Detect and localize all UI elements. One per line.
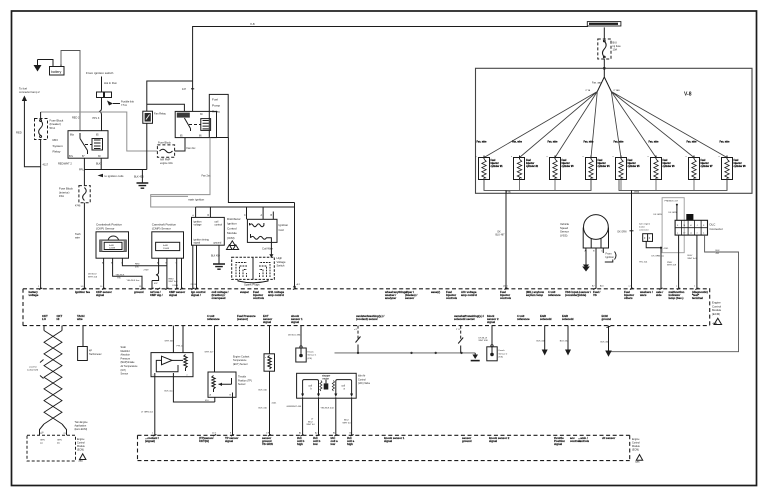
svg-text:DK GRN 4xx: DK GRN 4xx	[652, 256, 665, 258]
svg-text:Injector: Injector	[491, 162, 499, 165]
svg-text:Fuel: Fuel	[628, 160, 633, 162]
svg-text:(icide): (icide)	[578, 293, 586, 297]
svg-text:BLK/: BLK/	[688, 255, 693, 257]
svg-text:Switch: Switch	[277, 263, 285, 267]
twin engine in-line connector	[639, 222, 653, 241]
twisted pair to aux ECM	[40, 326, 67, 436]
wire tach feed through fuse block F3	[83, 170, 85, 289]
svg-text:WHT 4x1: WHT 4x1	[688, 258, 698, 260]
fuse block F4 (fan fuse, dashed)	[157, 141, 174, 165]
svg-text:WHT 4x9: WHT 4x9	[667, 265, 677, 267]
svg-text:Fan. wire: Fan. wire	[584, 142, 595, 144]
wire DLC ground loop	[610, 235, 739, 352]
svg-text:2749: 2749	[144, 269, 150, 271]
svg-text:ITTB: ITTB	[634, 192, 639, 194]
svg-text:Fuel: Fuel	[212, 98, 218, 102]
svg-text:solenoid: solenoid	[540, 317, 552, 321]
svg-text:cylinder #8: cylinder #8	[734, 166, 747, 168]
EGR ground arrow 1	[537, 326, 548, 356]
wire bus drops to ICM pins	[196, 207, 274, 219]
svg-text:others: others	[624, 296, 633, 300]
wire battery positive feed (RED) to MFI relay	[61, 51, 80, 131]
svg-text:BLU/: BLU/	[308, 421, 313, 423]
svg-text:V-8: V-8	[684, 92, 692, 98]
svg-text:Knock: Knock	[499, 350, 506, 352]
svg-text:AAA: AAA	[713, 322, 718, 325]
svg-text:(CMP) Sensor: (CMP) Sensor	[152, 227, 171, 231]
fuel injector #2	[511, 142, 539, 191]
svg-text:Sensor 1: Sensor 1	[308, 354, 318, 357]
wire VSS ground arrow	[585, 250, 587, 266]
svg-text:B/U: B/U	[613, 41, 617, 45]
svg-text:DK BLU/: DK BLU/	[88, 274, 97, 276]
svg-text:DK BLU 496: DK BLU 496	[288, 334, 301, 336]
svg-text:BLK: BLK	[716, 250, 721, 252]
svg-text:PNK/: PNK/	[667, 262, 672, 264]
svg-text:amp control: amp control	[461, 293, 477, 297]
svg-text:Position (TP): Position (TP)	[238, 379, 252, 382]
svg-text:Distributor: Distributor	[227, 217, 241, 221]
svg-text:(ICM): (ICM)	[227, 236, 235, 240]
wire PPL fuse to MFI relay with hop over bus	[99, 98, 102, 131]
svg-text:engine 10A: engine 10A	[160, 162, 173, 165]
svg-text:ground: ground	[214, 242, 222, 245]
fuel injector #7	[686, 142, 714, 191]
wire CMP-C signal	[176, 261, 178, 289]
aux ECM dashed box (twin engine)	[27, 435, 76, 461]
svg-text:asylum temp: asylum temp	[526, 293, 543, 297]
svg-text:signal: signal	[554, 442, 562, 446]
svg-text:YEL/BLK: YEL/BLK	[116, 274, 125, 276]
svg-text:ease(r): ease(r)	[431, 290, 440, 294]
svg-text:(signal): (signal)	[145, 439, 155, 443]
svg-text:(KS): (KS)	[499, 357, 504, 359]
svg-text:battery: battery	[51, 70, 62, 74]
fuel pump relay K1 contacts	[175, 111, 216, 137]
bottom ECM label	[632, 438, 643, 464]
svg-text:Fan 2xx: Fan 2xx	[187, 147, 197, 150]
svg-text:signal: signal	[487, 320, 495, 324]
svg-text:(consider): (consider)	[565, 293, 579, 297]
svg-text:Fan. wire: Fan. wire	[687, 142, 698, 144]
pale in-line connector housing	[662, 198, 684, 253]
svg-text:4P: 4P	[89, 349, 92, 352]
hot-at-all-times label box	[587, 22, 621, 26]
svg-text:C4 A6: C4 A6	[172, 284, 179, 287]
svg-text:to ignition coils: to ignition coils	[105, 174, 125, 178]
idle air control valve IAC	[297, 373, 357, 398]
svg-text:7.5 A: 7.5 A	[121, 103, 127, 107]
svg-text:wars: wars	[639, 293, 647, 297]
wire CKP-C reference jumper	[122, 261, 166, 289]
svg-text:high: high	[347, 442, 353, 446]
svg-text:Injector: Injector	[562, 162, 570, 165]
svg-text:BLU 467: BLU 467	[496, 234, 506, 236]
svg-text:CKT(hi): CKT(hi)	[199, 439, 209, 443]
fuel injector #4	[583, 142, 611, 191]
svg-text:Spark Plugs: Spark Plugs	[244, 282, 260, 286]
svg-text:amp control: amp control	[268, 293, 284, 297]
svg-text:Fuel: Fuel	[734, 160, 739, 162]
svg-text:Throttle: Throttle	[238, 376, 247, 379]
wire VSS outputs to PCM	[596, 250, 603, 288]
svg-text:low: low	[313, 442, 318, 446]
svg-text:PNK/BLK 417: PNK/BLK 417	[665, 200, 679, 202]
svg-text:control: control	[215, 223, 223, 226]
wire ignition switch to fuse	[101, 77, 103, 93]
svg-text:4x88: 4x88	[109, 245, 115, 247]
svg-text:Fan Relay: Fan Relay	[154, 111, 167, 115]
svg-text:Ignition: Ignition	[606, 255, 615, 259]
sensor ground bus (pale)	[335, 352, 480, 362]
svg-text:Injector: Injector	[526, 162, 534, 165]
fuse block F3 (dashed)	[59, 186, 90, 203]
svg-text:BLU/: BLU/	[344, 420, 349, 422]
PCM label	[712, 301, 722, 326]
svg-text:Fuel: Fuel	[701, 160, 706, 162]
svg-text:(ECT) Sensor: (ECT) Sensor	[233, 363, 248, 366]
svg-text:BLK 410: BLK 410	[259, 389, 268, 391]
svg-text:21 /2: 21 /2	[212, 433, 216, 435]
svg-text:447: 447	[182, 88, 187, 91]
svg-text:GRN: GRN	[40, 440, 45, 442]
svg-text:PPL: PPL	[79, 169, 84, 172]
svg-text:From ignition switch: From ignition switch	[86, 71, 114, 75]
svg-text:(Euro ECM): (Euro ECM)	[75, 428, 88, 431]
svg-text:tach(on/off): tach(on/off)	[27, 369, 38, 372]
ECT sensor R1	[264, 354, 275, 371]
svg-text:Coil: Coil	[279, 228, 285, 232]
svg-text:cylinder #7: cylinder #7	[701, 166, 714, 168]
wire DLC MIL line	[678, 235, 680, 288]
svg-text:(CKP) Sensor: (CKP) Sensor	[96, 227, 115, 231]
svg-text:AAA: AAA	[79, 460, 84, 463]
svg-text:(coolant) sensor: (coolant) sensor	[356, 317, 379, 321]
fuel pump relay K1 label box	[209, 94, 228, 137]
aux ECM pin ticks	[42, 432, 354, 437]
svg-text:ITTAB: ITTAB	[614, 89, 621, 92]
svg-text:A2: A2	[315, 432, 317, 435]
svg-text:Absolute: Absolute	[121, 354, 131, 357]
svg-text:wire: wire	[75, 235, 80, 239]
svg-text:DK BLU/: DK BLU/	[479, 337, 488, 339]
svg-text:cylinder #6: cylinder #6	[663, 166, 676, 168]
wire ICM timing pins to PCM	[193, 245, 197, 289]
svg-text:RED: RED	[16, 131, 22, 135]
wire injector control drop 1	[505, 190, 507, 288]
svg-text:10A: 10A	[613, 48, 618, 52]
svg-text:12x88: 12x88	[109, 248, 116, 250]
svg-text:(MAP)/Intake: (MAP)/Intake	[121, 361, 136, 364]
wire MAP signal to aux ECM	[154, 377, 156, 436]
svg-text:WHT 4x1: WHT 4x1	[169, 281, 179, 283]
svg-text:cylinder #2: cylinder #2	[526, 166, 539, 168]
svg-text:controls: controls	[253, 296, 264, 300]
svg-text:BLK: BLK	[96, 163, 101, 166]
svg-text:Air Temperature: Air Temperature	[121, 365, 139, 368]
svg-text:side: side	[656, 293, 662, 297]
svg-text:high: high	[297, 442, 303, 446]
svg-text:Ignition: Ignition	[279, 223, 289, 227]
svg-text:solenoid secret: solenoid secret	[454, 317, 475, 321]
fuel injector #5	[613, 142, 641, 191]
svg-text:A1: A1	[299, 432, 301, 435]
main bottom ECM dashed box	[138, 435, 630, 460]
svg-text:terminal: terminal	[692, 296, 703, 300]
DLC connector J1	[675, 214, 707, 235]
wire DLC power feed	[676, 204, 678, 206]
wire feed to fuel pump relay coil	[147, 104, 185, 111]
svg-text:CMP sig /: CMP sig /	[150, 293, 163, 297]
svg-text:15A: 15A	[59, 194, 64, 198]
svg-text:50 A: 50 A	[50, 126, 56, 130]
svg-text:ground: ground	[134, 290, 144, 294]
svg-text:reference: reference	[548, 293, 561, 297]
svg-text:AAA: AAA	[635, 460, 640, 463]
svg-text:signal /: signal /	[191, 293, 201, 297]
MAP sensor U2	[151, 353, 193, 377]
vehicle speed sensor VSS	[560, 215, 609, 253]
svg-text:controls: controls	[446, 296, 457, 300]
svg-text:HI: HI	[57, 317, 60, 321]
svg-text:YEL/BLK 444: YEL/BLK 444	[321, 407, 335, 409]
wire CMP-A with hop	[152, 261, 159, 289]
ECM ground arrow	[601, 326, 612, 357]
wire battery negative to ground	[38, 60, 54, 67]
svg-text:Fuel: Fuel	[491, 160, 496, 162]
fuel injector #1	[476, 142, 504, 191]
svg-text:RED/WHT 2: RED/WHT 2	[58, 163, 72, 166]
injector common bus	[484, 180, 727, 191]
wire main V8 feed line	[193, 27, 588, 112]
svg-text:PPL 3: PPL 3	[93, 117, 100, 120]
PCM main dashed box	[23, 288, 710, 325]
throttle position sensor TP	[208, 372, 236, 397]
wire fuel-connector lamp down and over to battery fuse	[24, 101, 40, 167]
svg-text:Pressure: Pressure	[121, 357, 131, 360]
wire ICM ground pin	[218, 245, 220, 263]
injector feed fan split	[597, 68, 611, 91]
fuel injector #3	[547, 142, 575, 191]
svg-text:Fan. aaa: Fan. aaa	[592, 82, 602, 85]
svg-text:connector: connector	[639, 228, 649, 231]
switch S1 (dashed link)	[354, 326, 361, 353]
svg-text:System: System	[53, 144, 64, 148]
svg-text:evaper: evaper	[240, 290, 250, 294]
svg-text:LT GRN 4x2: LT GRN 4x2	[141, 411, 154, 413]
svg-text:GRY 448: GRY 448	[165, 341, 175, 343]
svg-text:signal: signal	[489, 439, 497, 443]
svg-text:BLK 450: BLK 450	[211, 255, 221, 257]
svg-text:Idle Air: Idle Air	[358, 375, 366, 378]
svg-text:Hot In Run: Hot In Run	[104, 81, 117, 85]
svg-text:Fuel: Fuel	[562, 160, 567, 162]
distributor ignition control module ICM	[192, 217, 225, 245]
knock sensor 1 KS1	[288, 326, 317, 362]
svg-text:Fan. wire: Fan. wire	[614, 142, 625, 144]
svg-text:DK GRN: DK GRN	[618, 232, 627, 234]
svg-text:twin engine: twin engine	[639, 222, 651, 225]
node to-fuel-connector-lamp arrow	[19, 87, 40, 102]
fuse block F2 (battery fuse, dashed)	[35, 119, 64, 140]
wire TP 5V feed	[214, 326, 216, 372]
wire tach signal	[82, 326, 84, 347]
svg-text:solenoid: solenoid	[562, 317, 574, 321]
svg-text:Fuel: Fuel	[598, 160, 603, 162]
svg-text:PPL 4: PPL 4	[177, 345, 184, 347]
svg-text:Control: Control	[358, 378, 366, 381]
svg-text:8: 8	[230, 433, 231, 435]
tachometer box	[78, 347, 102, 361]
svg-text:Manifold: Manifold	[121, 350, 131, 353]
svg-text:ignition fea: ignition fea	[75, 290, 90, 294]
op MFI system relay U1	[68, 131, 108, 159]
wire TP signal to aux ECM	[232, 397, 234, 435]
svg-text:ground: ground	[462, 439, 472, 443]
svg-text:Engine Coolant: Engine Coolant	[233, 355, 250, 358]
wire in-line connector to junction	[646, 241, 661, 247]
svg-text:Module: Module	[227, 231, 237, 235]
svg-text:ITTA: ITTA	[586, 89, 591, 92]
fusible link arrow	[107, 100, 135, 108]
svg-text:BLK 434: BLK 434	[560, 340, 569, 342]
svg-text:used for: used for	[29, 365, 37, 368]
svg-text:VS: VS	[593, 293, 597, 297]
svg-text:4141: 4141	[664, 248, 670, 250]
svg-text:DK GRN: DK GRN	[669, 212, 678, 214]
svg-text:(ECM): (ECM)	[632, 448, 639, 451]
svg-text:High: High	[277, 256, 283, 260]
svg-text:signal: signal	[96, 293, 104, 297]
svg-text:4117: 4117	[43, 163, 49, 167]
svg-text:stepper: stepper	[322, 375, 330, 378]
svg-text:coil: coil	[309, 386, 313, 388]
wire fan output (pale) to main ignition bus	[151, 138, 210, 207]
fuse F5 (ECM B fuse, dashed)	[598, 39, 621, 59]
wire to ignition coils arrow	[98, 174, 125, 178]
svg-text:(a): (a)	[40, 442, 43, 444]
wire main ignition bus to ICM and coil	[196, 138, 295, 208]
warning triangles	[227, 241, 239, 250]
svg-text:WHT 44: WHT 44	[343, 422, 352, 424]
svg-text:RED 2: RED 2	[72, 116, 80, 119]
svg-text:Relay: Relay	[53, 150, 61, 154]
wire injector control drop 2	[631, 190, 633, 288]
switch S2 (dashed link)	[456, 326, 463, 353]
svg-text:DLC: DLC	[710, 223, 716, 227]
spark plugs SP1-8	[232, 257, 275, 286]
svg-text:WHT 44: WHT 44	[307, 424, 316, 426]
svg-text:Fusible link: Fusible link	[121, 100, 135, 104]
svg-text:BLK 450: BLK 450	[134, 176, 144, 179]
svg-text:(b): (b)	[57, 442, 60, 444]
svg-text:YEL 4x4: YEL 4x4	[639, 261, 648, 263]
svg-text:4x88: 4x88	[163, 245, 169, 247]
svg-text:Voltage: Voltage	[277, 260, 286, 264]
ground G3 (ICM ground)	[213, 264, 225, 269]
svg-text:MFI: MFI	[53, 138, 58, 142]
svg-text:signal: signal	[384, 439, 392, 443]
svg-text:reference: reference	[207, 317, 220, 321]
svg-text:YEL/BLK 4xx: YEL/BLK 4xx	[127, 280, 141, 282]
aux ECM label	[77, 438, 86, 463]
svg-text:Sensor: Sensor	[238, 383, 246, 386]
svg-text:Coil Wire: Coil Wire	[262, 246, 273, 250]
svg-text:VS GRN: VS GRN	[262, 442, 273, 446]
svg-text:J: J	[697, 225, 698, 227]
svg-text:Tach: Tach	[75, 232, 81, 236]
svg-text:ground: ground	[602, 317, 612, 321]
wire battery fuse to ECM battery pin	[40, 140, 42, 289]
svg-text:BLK 450: BLK 450	[601, 341, 610, 343]
svg-text:Sensor 2: Sensor 2	[499, 352, 509, 355]
svg-text:WHT 4x6: WHT 4x6	[88, 276, 98, 278]
svg-text:lamp (Sec.): lamp (Sec.)	[669, 296, 684, 300]
svg-text:BLK 434: BLK 434	[537, 340, 546, 342]
svg-text:connector lamp 2: connector lamp 2	[19, 90, 40, 94]
wire fan lines to injectors 1-4	[484, 92, 597, 158]
svg-text:Scab: Scab	[121, 346, 127, 349]
svg-text:coil: coil	[342, 386, 346, 388]
svg-text:20: 20	[42, 432, 44, 434]
svg-text:signal: signal	[291, 320, 299, 324]
wire CKP-A signal to PCM	[103, 261, 105, 289]
svg-text:Fuel: Fuel	[526, 160, 531, 162]
svg-text:4141: 4141	[272, 402, 278, 404]
svg-text:controls: controls	[500, 296, 511, 300]
svg-text:B2: B2	[350, 433, 352, 435]
svg-text:Fan. wire: Fan. wire	[649, 142, 660, 144]
wire feed to ECM-B fuse	[603, 27, 605, 39]
wire IAC coil wires to aux ECM	[303, 397, 352, 435]
svg-text:in-line: in-line	[639, 226, 646, 228]
wire MFI relay output bus	[84, 158, 146, 169]
svg-text:b*: b*	[684, 232, 686, 234]
wire fuse to V8 junction	[603, 59, 605, 68]
svg-text:cylinder #3: cylinder #3	[562, 166, 575, 168]
svg-text:signal: signal	[263, 320, 271, 324]
wire CMP extra pin	[181, 258, 183, 289]
wire ECT feed	[269, 326, 271, 354]
svg-text:(ECM): (ECM)	[712, 312, 720, 316]
svg-text:analyzer: analyzer	[385, 296, 397, 300]
svg-text:4746: 4746	[75, 205, 81, 208]
PCM pin labels row2	[42, 314, 611, 324]
svg-text:low: low	[331, 442, 336, 446]
svg-text:B1: B1	[333, 433, 335, 435]
PCM pin ticks	[38, 285, 699, 290]
wire fuse block F2 stub	[40, 112, 42, 119]
svg-text:signal: signal	[169, 293, 177, 297]
svg-text:(ECM): (ECM)	[77, 448, 84, 451]
svg-text:Fan 2xx: Fan 2xx	[202, 175, 212, 178]
camshaft position sensor CMP	[152, 223, 184, 265]
svg-text:main ignition: main ignition	[188, 197, 205, 201]
svg-text:voltage: voltage	[194, 223, 203, 226]
svg-text:RED: RED	[135, 264, 140, 266]
svg-text:(KS): (KS)	[308, 358, 313, 360]
svg-text:wire: wire	[76, 317, 83, 321]
wire relay to fan fuse	[175, 138, 185, 151]
fan relay K2	[143, 111, 167, 123]
wire top feed bus to both relays	[147, 81, 193, 111]
svg-text:RED/: RED/	[169, 278, 175, 280]
svg-text:Injector: Injector	[598, 162, 606, 165]
svg-text:Ignition: Ignition	[227, 222, 237, 226]
svg-text:inj fuse: inj fuse	[613, 44, 622, 48]
svg-text:BLK 4xx: BLK 4xx	[165, 390, 174, 392]
svg-text:23 24: 23 24	[191, 284, 197, 286]
